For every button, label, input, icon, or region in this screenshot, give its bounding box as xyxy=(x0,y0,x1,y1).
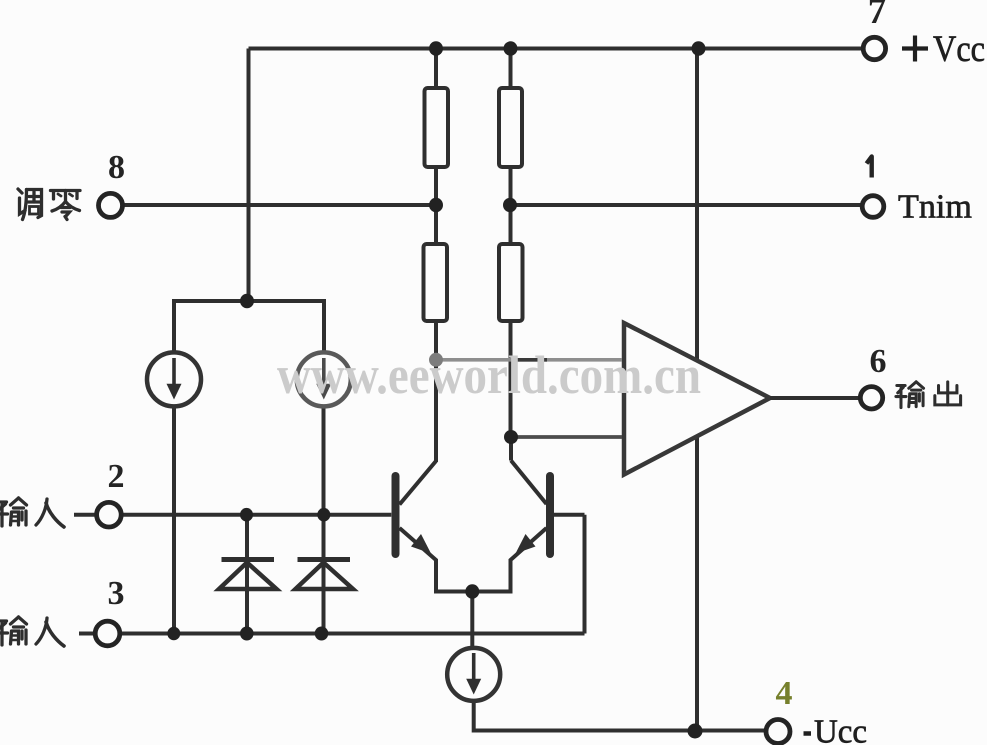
svg-text:2: 2 xyxy=(108,458,125,495)
svg-text:Vcc: Vcc xyxy=(933,29,985,70)
svg-text:Ucc: Ucc xyxy=(814,714,867,745)
svg-text:3: 3 xyxy=(108,575,125,612)
svg-text:8: 8 xyxy=(108,149,125,186)
svg-text:Tnim: Tnim xyxy=(898,189,972,226)
svg-text:6: 6 xyxy=(870,343,887,380)
svg-text:7: 7 xyxy=(868,0,887,32)
svg-text:4: 4 xyxy=(776,675,793,712)
svg-text:www.eeworld.com.cn: www.eeworld.com.cn xyxy=(277,345,701,405)
